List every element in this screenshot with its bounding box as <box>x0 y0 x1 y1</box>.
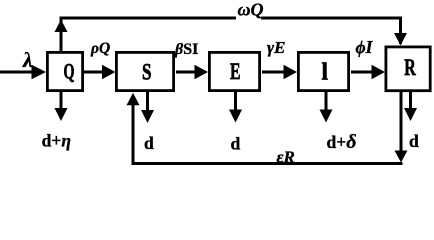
label Q in box <box>64 59 75 84</box>
arrowhead up into S bottom <box>127 93 140 106</box>
svg-text:d: d <box>144 133 154 153</box>
svg-text:d: d <box>409 131 419 151</box>
label epsilon-R <box>277 148 295 167</box>
svg-text:λ: λ <box>22 48 33 72</box>
wire arrow I to R <box>351 65 385 79</box>
svg-text:ρQ: ρQ <box>90 40 110 57</box>
wire lambda input arrow <box>0 65 46 79</box>
label R in box <box>404 55 416 81</box>
arrowhead down into R top <box>394 33 407 46</box>
label d below R <box>409 131 419 151</box>
wire arrow Q to S <box>84 65 116 79</box>
svg-text:d+η: d+η <box>42 131 71 151</box>
label S in box <box>142 60 152 86</box>
label d+eta <box>42 131 71 151</box>
svg-text:S: S <box>142 60 152 86</box>
svg-text:γE: γE <box>267 38 285 57</box>
label gamma-E <box>267 38 285 57</box>
wire death arrow below S <box>141 92 154 123</box>
wire arrow S to E <box>176 65 208 79</box>
svg-text:E: E <box>230 59 241 85</box>
label lambda <box>22 48 33 72</box>
svg-text:l: l <box>322 60 329 86</box>
svg-text:ωQ: ωQ <box>238 0 264 20</box>
wire arrow E to I <box>262 65 297 79</box>
label d below S <box>144 133 154 153</box>
svg-text:βSI: βSI <box>174 41 198 58</box>
box I <box>298 52 348 90</box>
svg-text:Q: Q <box>64 59 75 84</box>
wire death arrow below E <box>229 92 242 123</box>
wire death arrow below R <box>404 92 417 121</box>
arrowhead down at bottom of R return stem <box>395 151 408 163</box>
label d below E <box>231 134 241 154</box>
box E <box>209 52 259 90</box>
label I in box <box>322 60 329 86</box>
svg-text:d: d <box>231 134 241 154</box>
box S <box>116 52 173 90</box>
svg-text:εR: εR <box>277 148 295 167</box>
svg-text:ϕI: ϕI <box>356 37 374 57</box>
wire death arrow below Q <box>55 92 68 121</box>
box Q <box>47 52 82 90</box>
wire top line from Q up, across, down to R <box>61 18 401 51</box>
label phi-I <box>356 37 374 57</box>
box R <box>386 47 430 91</box>
label E in box <box>230 59 241 85</box>
svg-text:d+δ: d+δ <box>327 131 357 153</box>
label omega-Q <box>236 0 264 21</box>
arrowhead up at top of Q stem <box>55 20 68 33</box>
svg-text:R: R <box>404 55 416 81</box>
wire epsilon-R return line from R bottom to S bottom <box>133 92 403 164</box>
label d+delta <box>327 131 357 153</box>
label rho-Q <box>90 40 110 57</box>
label beta-S-I <box>174 41 198 58</box>
wire death arrow below I <box>320 92 333 123</box>
